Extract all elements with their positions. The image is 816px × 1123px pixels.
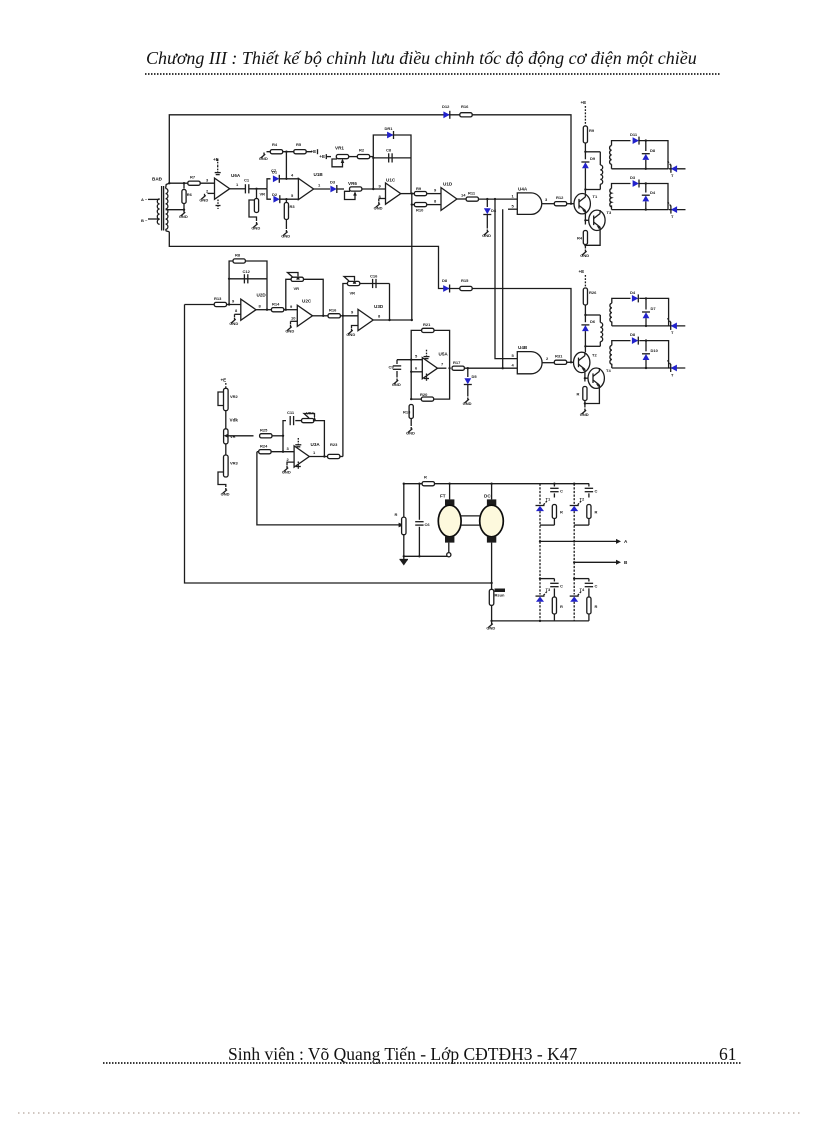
svg-text:VR6: VR6 [348, 181, 357, 186]
svg-text:C6: C6 [425, 522, 431, 527]
svg-text:7: 7 [441, 362, 444, 367]
svg-text:T: T [671, 373, 674, 378]
svg-text:R11: R11 [468, 191, 476, 196]
svg-text:6: 6 [415, 366, 418, 371]
svg-text:U3A: U3A [311, 442, 321, 447]
svg-text:Rsun: Rsun [495, 593, 506, 598]
svg-text:R: R [395, 512, 398, 517]
svg-text:T: T [671, 330, 674, 335]
svg-text:U2D: U2D [257, 293, 267, 298]
svg-text:C: C [595, 584, 598, 589]
svg-text:3: 3 [545, 197, 548, 202]
svg-text:FT: FT [440, 494, 446, 499]
svg-text:C11: C11 [287, 410, 295, 415]
svg-text:R7: R7 [190, 175, 196, 180]
svg-text:R2: R2 [359, 148, 365, 153]
svg-text:R23: R23 [330, 442, 338, 447]
svg-text:U3D: U3D [374, 304, 384, 309]
svg-text:U2C: U2C [302, 299, 312, 304]
svg-text:R10: R10 [416, 208, 424, 213]
svg-text:D4: D4 [491, 208, 497, 213]
svg-text:R: R [560, 604, 563, 609]
svg-text:C7: C7 [271, 168, 277, 173]
svg-text:T4: T4 [606, 368, 611, 373]
svg-text:C: C [560, 489, 563, 494]
svg-text:Vdk: Vdk [230, 418, 239, 423]
svg-text:2: 2 [546, 356, 549, 361]
svg-text:VR1: VR1 [335, 146, 344, 151]
svg-text:1: 1 [236, 182, 239, 187]
svg-text:T2: T2 [580, 497, 585, 502]
svg-text:R21: R21 [423, 322, 431, 327]
svg-text:D8: D8 [650, 148, 656, 153]
svg-text:R13: R13 [214, 296, 222, 301]
svg-text:DC: DC [484, 494, 491, 499]
svg-text:3: 3 [287, 446, 290, 451]
svg-text:A: A [624, 539, 628, 544]
svg-text:D12: D12 [442, 104, 450, 109]
svg-text:10: 10 [291, 316, 296, 321]
svg-text:8: 8 [378, 314, 381, 319]
svg-text:R14: R14 [272, 302, 280, 307]
svg-text:1: 1 [512, 194, 515, 199]
svg-text:T4: T4 [580, 587, 585, 592]
svg-text:D4: D4 [630, 290, 636, 295]
svg-text:B: B [624, 560, 628, 565]
svg-text:D6: D6 [590, 319, 596, 324]
svg-text:U6A: U6A [231, 173, 241, 178]
svg-text:VR: VR [294, 286, 300, 291]
svg-text:8: 8 [434, 199, 437, 204]
svg-text:1: 1 [313, 450, 316, 455]
svg-text:9: 9 [379, 184, 382, 189]
svg-text:U1B: U1B [314, 172, 324, 177]
svg-text:R4: R4 [577, 236, 583, 241]
svg-text:9: 9 [232, 299, 235, 304]
svg-text:14: 14 [461, 193, 466, 198]
svg-text:D11: D11 [630, 132, 638, 137]
svg-text:T1: T1 [593, 194, 598, 199]
svg-text:C1: C1 [244, 178, 250, 183]
svg-text:R: R [577, 392, 580, 397]
svg-text:BAĐ: BAĐ [152, 177, 163, 182]
svg-text:+E: +E [221, 378, 227, 383]
svg-text:+E: +E [579, 269, 585, 274]
svg-text:D9: D9 [590, 156, 596, 161]
svg-text:DR1: DR1 [385, 126, 394, 131]
svg-text:R16: R16 [461, 104, 469, 109]
svg-text:T: T [671, 214, 674, 219]
svg-text:VR: VR [260, 192, 266, 197]
svg-text:R17: R17 [453, 360, 461, 365]
svg-text:+E: +E [581, 100, 587, 105]
svg-text:8: 8 [259, 304, 262, 309]
svg-text:9: 9 [434, 188, 437, 193]
svg-text:R: R [560, 510, 563, 515]
svg-text:R: R [595, 604, 598, 609]
svg-text:U1D: U1D [443, 182, 453, 187]
svg-text:R20: R20 [420, 392, 428, 397]
svg-text:B ~: B ~ [141, 218, 148, 223]
svg-text:R18: R18 [403, 410, 411, 415]
svg-text:C8: C8 [386, 148, 392, 153]
svg-text:D3: D3 [330, 180, 336, 185]
svg-text:R9: R9 [589, 128, 595, 133]
svg-text:VR: VR [230, 434, 236, 439]
svg-text:4: 4 [512, 363, 515, 368]
svg-text:5: 5 [512, 353, 515, 358]
svg-text:5: 5 [415, 354, 418, 359]
svg-text:U4B: U4B [518, 345, 528, 350]
svg-text:T: T [671, 173, 674, 178]
svg-text:D2: D2 [272, 192, 278, 197]
svg-text:R25: R25 [260, 428, 268, 433]
svg-text:U5A: U5A [439, 352, 449, 357]
svg-text:T3: T3 [607, 210, 612, 215]
svg-text:C: C [595, 489, 598, 494]
svg-text:3: 3 [206, 178, 209, 183]
svg-text:T1: T1 [546, 497, 551, 502]
svg-text:R5: R5 [296, 142, 302, 147]
svg-text:D4: D4 [650, 190, 656, 195]
svg-text:A ~: A ~ [141, 197, 148, 202]
svg-text:R16: R16 [329, 308, 337, 313]
svg-text:U4A: U4A [518, 187, 528, 192]
svg-text:U1C: U1C [386, 178, 396, 183]
svg-text:R26: R26 [589, 290, 597, 295]
svg-text:VR: VR [350, 291, 356, 296]
svg-text:1: 1 [318, 182, 321, 187]
svg-text:D3: D3 [630, 175, 636, 180]
svg-text:D8: D8 [442, 278, 448, 283]
svg-text:9: 9 [351, 310, 354, 315]
svg-text:VR3: VR3 [230, 461, 239, 466]
svg-text:5: 5 [512, 204, 515, 209]
svg-text:D8: D8 [630, 332, 636, 337]
svg-text:R15: R15 [461, 278, 469, 283]
svg-text:C: C [560, 584, 563, 589]
svg-text:C16: C16 [370, 274, 378, 279]
svg-text:D10: D10 [651, 348, 659, 353]
svg-text:R4: R4 [272, 142, 278, 147]
svg-text:R: R [424, 475, 427, 480]
svg-text:4: 4 [291, 173, 294, 178]
svg-text:5: 5 [291, 193, 294, 198]
svg-text:R24: R24 [260, 444, 268, 449]
svg-text:R31: R31 [555, 354, 563, 359]
svg-text:C9: C9 [389, 365, 395, 370]
svg-text:R12: R12 [556, 195, 564, 200]
svg-text:D5: D5 [472, 374, 478, 379]
svg-text:D7: D7 [651, 306, 657, 311]
svg-text:C12: C12 [243, 269, 251, 274]
svg-text:R9: R9 [416, 186, 422, 191]
svg-text:R6: R6 [187, 192, 193, 197]
svg-text:T3: T3 [546, 587, 551, 592]
svg-text:2: 2 [287, 457, 290, 462]
svg-text:R3: R3 [290, 204, 296, 209]
svg-text:VR2: VR2 [230, 394, 239, 399]
svg-text:8: 8 [235, 308, 238, 313]
svg-text:R: R [595, 510, 598, 515]
svg-text:R8: R8 [235, 253, 241, 258]
svg-text:T2: T2 [592, 353, 597, 358]
svg-text:9: 9 [290, 304, 293, 309]
